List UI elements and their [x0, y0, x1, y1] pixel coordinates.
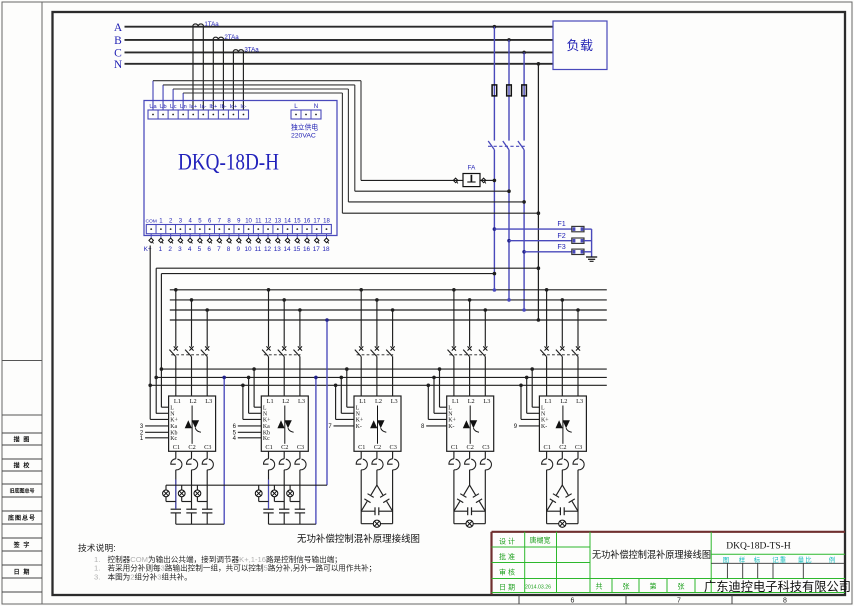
svg-text:11: 11 [254, 246, 261, 253]
svg-text:描 校: 描 校 [14, 461, 31, 469]
svg-text:图: 图 [723, 556, 729, 564]
svg-text:K-: K- [448, 424, 454, 430]
svg-text:比: 比 [805, 555, 812, 564]
svg-text:C1: C1 [358, 444, 365, 451]
svg-text:批 准: 批 准 [499, 552, 515, 561]
svg-text:C3: C3 [204, 444, 211, 451]
svg-text:18: 18 [323, 218, 330, 224]
svg-text:L3: L3 [576, 398, 583, 405]
svg-text:重: 重 [780, 556, 787, 564]
svg-text:C3: C3 [297, 444, 304, 451]
svg-text:10: 10 [245, 246, 253, 253]
svg-text:审 核: 审 核 [499, 568, 515, 577]
svg-text:C2: C2 [467, 444, 474, 451]
svg-text:Ka: Ka [170, 424, 177, 430]
svg-text:L2: L2 [190, 398, 197, 405]
svg-text:N: N [263, 412, 268, 418]
svg-text:L: L [541, 406, 545, 412]
svg-text:1TAa: 1TAa [204, 21, 219, 28]
svg-text:L: L [356, 406, 360, 412]
svg-text:L1: L1 [359, 398, 366, 405]
svg-text:Ia+: Ia+ [189, 104, 197, 110]
svg-text:F3: F3 [557, 242, 565, 251]
svg-text:C1: C1 [265, 444, 272, 451]
svg-text:记: 记 [772, 556, 779, 564]
svg-text:2TAa: 2TAa [224, 34, 239, 41]
svg-text:13: 13 [274, 218, 281, 224]
svg-text:L2: L2 [375, 398, 382, 405]
svg-text:2014.03.26: 2014.03.26 [525, 585, 551, 591]
svg-text:12: 12 [264, 246, 272, 253]
svg-text:1.: 1. [94, 564, 100, 573]
svg-text:K+: K+ [448, 418, 456, 424]
svg-text:3TAa: 3TAa [244, 47, 259, 54]
svg-text:C: C [114, 48, 122, 60]
svg-text:描 图: 描 图 [14, 435, 31, 443]
svg-text:5: 5 [198, 246, 202, 253]
svg-text:无功补偿控制混补原理接线图: 无功补偿控制混补原理接线图 [297, 532, 420, 545]
svg-text:例: 例 [829, 555, 835, 564]
svg-text:本图为2组分补3组共补。: 本图为2组分补3组共补。 [108, 572, 192, 582]
svg-text:K-: K- [356, 424, 362, 430]
svg-text:10: 10 [245, 218, 252, 224]
svg-text:K+: K+ [263, 418, 271, 424]
svg-text:8: 8 [227, 246, 231, 253]
svg-text:8: 8 [783, 597, 787, 604]
svg-text:7: 7 [677, 597, 681, 604]
svg-text:L1: L1 [545, 398, 552, 405]
svg-text:B: B [114, 35, 122, 47]
svg-text:设 计: 设 计 [499, 537, 515, 546]
svg-text:L: L [294, 103, 298, 110]
svg-text:6: 6 [207, 246, 211, 253]
svg-text:14: 14 [284, 218, 291, 224]
svg-text:L1: L1 [267, 398, 274, 405]
svg-text:L2: L2 [468, 398, 475, 405]
svg-text:C1: C1 [451, 444, 458, 451]
svg-text:N: N [448, 412, 453, 418]
svg-text:Kc: Kc [170, 436, 177, 442]
svg-text:L3: L3 [298, 398, 305, 405]
svg-text:6: 6 [571, 597, 575, 604]
svg-text:16: 16 [304, 218, 311, 224]
svg-text:1: 1 [159, 246, 163, 253]
svg-text:K+: K+ [356, 418, 364, 424]
svg-text:F2: F2 [557, 231, 565, 240]
svg-text:C3: C3 [482, 444, 489, 451]
svg-text:控制器COM为输出公共端，接到调节器K+,1-16路是控制信: 控制器COM为输出公共端，接到调节器K+,1-16路是控制信号输出端； [108, 554, 342, 564]
svg-text:C3: C3 [390, 444, 397, 451]
svg-text:Ia-: Ia- [200, 104, 207, 110]
svg-text:14: 14 [283, 246, 291, 253]
svg-text:L: L [170, 406, 174, 412]
svg-text:C1: C1 [173, 444, 180, 451]
svg-text:2: 2 [168, 246, 172, 253]
svg-text:COM: COM [145, 218, 156, 224]
svg-text:C2: C2 [374, 444, 381, 451]
svg-text:C2: C2 [559, 444, 566, 451]
svg-text:12: 12 [265, 218, 272, 224]
svg-text:N: N [356, 412, 361, 418]
svg-text:样: 样 [739, 555, 746, 564]
svg-text:F1: F1 [557, 219, 565, 228]
svg-text:Ib+: Ib+ [209, 104, 217, 110]
svg-text:独立供电: 独立供电 [291, 123, 318, 132]
svg-text:13: 13 [274, 246, 282, 253]
svg-text:3.: 3. [94, 573, 100, 582]
svg-text:FA: FA [468, 165, 476, 172]
svg-text:C1: C1 [544, 444, 551, 451]
svg-text:K-: K- [541, 424, 547, 430]
svg-text:N: N [314, 103, 318, 110]
svg-text:无功补偿控制混补原理接线图: 无功补偿控制混补原理接线图 [592, 549, 711, 560]
svg-text:共: 共 [596, 582, 603, 591]
svg-text:量: 量 [798, 556, 805, 564]
svg-text:N: N [541, 412, 546, 418]
svg-text:DKQ-18D-TS-H: DKQ-18D-TS-H [726, 542, 791, 552]
svg-text:Ic-: Ic- [240, 104, 246, 110]
svg-text:K+: K+ [170, 418, 178, 424]
svg-text:15: 15 [293, 246, 301, 253]
svg-text:9: 9 [237, 246, 241, 253]
svg-text:K+: K+ [541, 418, 549, 424]
svg-text:张: 张 [623, 582, 630, 591]
svg-text:标: 标 [754, 555, 761, 564]
svg-text:L3: L3 [391, 398, 398, 405]
svg-text:C2: C2 [188, 444, 195, 451]
svg-text:Kc: Kc [263, 436, 270, 442]
svg-text:A: A [114, 22, 123, 34]
svg-text:7: 7 [217, 246, 221, 253]
svg-text:Ic+: Ic+ [230, 104, 238, 110]
svg-text:第: 第 [650, 582, 657, 591]
svg-text:日 期: 日 期 [14, 568, 31, 576]
svg-text:签 字: 签 字 [13, 541, 31, 549]
svg-text:18: 18 [322, 246, 330, 253]
svg-text:N: N [114, 59, 123, 71]
svg-text:L1: L1 [452, 398, 459, 405]
svg-text:C3: C3 [575, 444, 582, 451]
svg-text:3: 3 [178, 246, 182, 253]
svg-text:Ib-: Ib- [220, 104, 227, 110]
svg-text:16: 16 [303, 246, 311, 253]
svg-text:唐楜宽: 唐楜宽 [530, 536, 551, 545]
svg-text:L2: L2 [282, 398, 289, 405]
svg-text:L: L [263, 406, 267, 412]
svg-text:广东迪控电子科技有限公司: 广东迪控电子科技有限公司 [704, 580, 851, 594]
svg-text:技术说明:: 技术说明: [78, 542, 116, 553]
svg-text:旧底图总号: 旧底图总号 [9, 488, 34, 495]
svg-text:日 期: 日 期 [499, 583, 515, 591]
svg-text:C2: C2 [281, 444, 288, 451]
svg-text:17: 17 [313, 246, 321, 253]
svg-text:L: L [448, 406, 452, 412]
svg-text:L1: L1 [174, 398, 181, 405]
svg-text:220VAC: 220VAC [291, 133, 316, 140]
svg-text:17: 17 [313, 218, 320, 224]
svg-text:11: 11 [255, 218, 262, 224]
svg-text:15: 15 [294, 218, 301, 224]
svg-text:底图总号: 底图总号 [8, 514, 36, 522]
svg-text:负载: 负载 [566, 38, 593, 53]
svg-text:4: 4 [188, 246, 192, 253]
svg-text:DKQ-18D-H: DKQ-18D-H [178, 150, 279, 176]
svg-text:张: 张 [678, 582, 685, 591]
svg-text:L3: L3 [483, 398, 490, 405]
svg-text:L2: L2 [560, 398, 567, 405]
svg-text:L3: L3 [205, 398, 212, 405]
svg-text:Ka: Ka [263, 424, 270, 430]
svg-text:N: N [170, 412, 175, 418]
svg-text:若采用分补则每3路输出控制一组，共可以控制5路分补,另外一路: 若采用分补则每3路输出控制一组，共可以控制5路分补,另外一路可以用作共补； [108, 563, 377, 573]
